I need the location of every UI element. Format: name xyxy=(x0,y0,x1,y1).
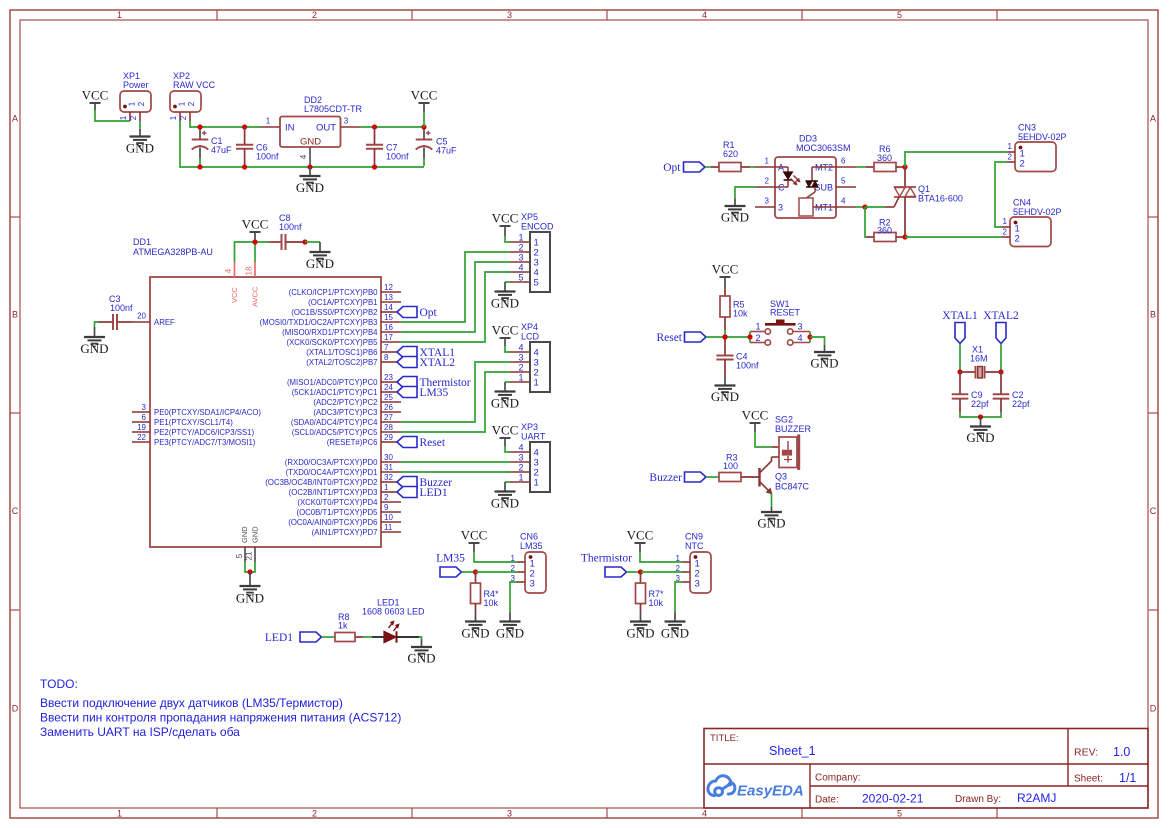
svg-text:PE3(PTCY/ADC7/T3/MOSI1): PE3(PTCY/ADC7/T3/MOSI1) xyxy=(154,438,256,447)
wire xyxy=(322,636,336,638)
svg-text:GND: GND xyxy=(711,389,739,404)
svg-text:(OC0A/AIN0/PTCXY)PD6: (OC0A/AIN0/PTCXY)PD6 xyxy=(288,518,377,527)
svg-text:7: 7 xyxy=(384,343,389,352)
svg-text:100: 100 xyxy=(723,461,738,471)
capacitor C5 xyxy=(426,132,431,134)
svg-text:1: 1 xyxy=(266,117,271,126)
connector CN9 xyxy=(690,552,711,593)
svg-text:(RESET#)PC6: (RESET#)PC6 xyxy=(327,438,378,447)
svg-text:XP4: XP4 xyxy=(521,322,538,332)
net flag LED1 (PD3) xyxy=(397,487,417,498)
svg-text:15: 15 xyxy=(384,313,393,322)
connector XP4 xyxy=(530,342,550,392)
net flag Opt (input) xyxy=(684,162,706,172)
svg-text:10k: 10k xyxy=(733,309,748,319)
svg-text:GND: GND xyxy=(236,591,264,606)
wire xyxy=(462,571,476,573)
svg-text:26: 26 xyxy=(384,403,393,412)
net flag LED1 (input) xyxy=(300,632,322,642)
svg-text:1: 1 xyxy=(755,322,760,332)
wire xyxy=(505,381,510,383)
svg-text:4: 4 xyxy=(518,343,523,353)
svg-text:2: 2 xyxy=(179,115,188,120)
net flag LM35 (PC1) xyxy=(397,387,417,398)
svg-text:5EHDV-02P: 5EHDV-02P xyxy=(1018,132,1067,142)
DD1 pin 32 PD2 xyxy=(381,481,397,483)
svg-text:3: 3 xyxy=(507,10,512,20)
svg-text:D: D xyxy=(12,704,19,714)
svg-text:1: 1 xyxy=(534,478,539,489)
power flag VCC (SG2) xyxy=(750,422,761,424)
svg-text:L7805CDT-TR: L7805CDT-TR xyxy=(304,104,363,114)
svg-text:GND: GND xyxy=(296,180,324,195)
DD1 pin 29 PC6 xyxy=(381,441,397,443)
wire xyxy=(724,330,726,337)
wire xyxy=(305,241,320,243)
svg-text:2: 2 xyxy=(518,243,523,253)
svg-text:16: 16 xyxy=(384,323,393,332)
svg-text:3: 3 xyxy=(778,203,783,213)
svg-text:UART: UART xyxy=(521,432,546,442)
svg-text:RAW VCC: RAW VCC xyxy=(173,80,216,90)
svg-text:1: 1 xyxy=(765,157,770,166)
DD1 pin 31 PD1 xyxy=(381,471,401,473)
power flag VCC (XP3) xyxy=(500,437,511,439)
junction xyxy=(197,124,202,129)
svg-text:AREF: AREF xyxy=(154,318,175,327)
svg-text:GND: GND xyxy=(491,296,519,311)
svg-text:GND: GND xyxy=(250,526,259,543)
svg-text:4: 4 xyxy=(518,443,523,453)
resistor R5 xyxy=(724,288,726,296)
svg-text:LM35: LM35 xyxy=(436,553,465,565)
wire xyxy=(706,476,719,478)
svg-text:1: 1 xyxy=(518,373,523,383)
DD1 pin 12 PB0 xyxy=(381,291,401,293)
net flag Reset (input) xyxy=(685,332,707,342)
DD1 pin 23 PC0 xyxy=(381,381,397,383)
resistor R4* xyxy=(475,572,477,583)
power flag VCC (R5) xyxy=(720,276,731,278)
capacitor C7 xyxy=(374,127,376,145)
wire xyxy=(250,562,255,572)
junction xyxy=(421,124,426,129)
wire xyxy=(401,262,510,332)
wire xyxy=(505,236,510,242)
svg-text:12: 12 xyxy=(384,283,393,292)
svg-text:(XTAL2/TOSC2)PB7: (XTAL2/TOSC2)PB7 xyxy=(306,358,377,367)
wire xyxy=(254,242,256,262)
ground GND (XP3) xyxy=(504,482,506,492)
wire xyxy=(505,281,510,283)
wire xyxy=(401,372,510,432)
ground GND (XP5) xyxy=(504,282,506,292)
junction xyxy=(747,334,752,339)
svg-text:5: 5 xyxy=(518,273,523,283)
svg-text:1.0: 1.0 xyxy=(1113,745,1130,759)
svg-text:LM35: LM35 xyxy=(420,387,449,399)
IC DD1 ATMEGA328PB-AU xyxy=(150,277,381,547)
svg-text:620: 620 xyxy=(723,149,738,159)
svg-text:31: 31 xyxy=(384,463,393,472)
svg-text:10k: 10k xyxy=(484,598,499,608)
svg-text:10: 10 xyxy=(384,513,393,522)
wire xyxy=(705,166,711,168)
DD1 pin 8 PB7 xyxy=(381,361,397,363)
svg-text:1608 0603 LED: 1608 0603 LED xyxy=(362,607,425,617)
svg-text:Buzzer: Buzzer xyxy=(649,472,682,484)
svg-text:(MISO1/ADC0/PTCY)PC0: (MISO1/ADC0/PTCY)PC0 xyxy=(287,378,378,387)
DD1 pin 2 PD4 xyxy=(381,501,401,503)
svg-text:(XCK0/T0/PTCXY)PD4: (XCK0/T0/PTCXY)PD4 xyxy=(297,498,378,507)
svg-text:2: 2 xyxy=(676,564,681,573)
svg-text:(OC0B/T1/PTCXY)PD5: (OC0B/T1/PTCXY)PD5 xyxy=(296,508,378,517)
svg-text:1: 1 xyxy=(534,378,539,389)
wire xyxy=(960,412,1001,417)
svg-text:GND: GND xyxy=(461,626,489,641)
svg-text:Q1: Q1 xyxy=(918,184,930,194)
svg-text:(CLKO/ICP1/PTCXY)PB0: (CLKO/ICP1/PTCXY)PB0 xyxy=(289,288,378,297)
svg-text:IN: IN xyxy=(285,123,295,134)
ground GND (R7*) xyxy=(640,613,642,622)
wire xyxy=(245,562,250,572)
svg-text:3: 3 xyxy=(518,353,523,363)
ground GND (CN9 pin3) xyxy=(674,613,676,622)
svg-text:GND: GND xyxy=(661,626,689,641)
svg-text:Reset: Reset xyxy=(656,332,682,344)
ground GND (C4) xyxy=(724,378,726,386)
svg-text:PE1(PTCXY/SCL1/T4): PE1(PTCXY/SCL1/T4) xyxy=(154,418,233,427)
svg-text:(XTAL1/TOSC1)PB6: (XTAL1/TOSC1)PB6 xyxy=(306,348,377,357)
svg-text:GND: GND xyxy=(300,137,321,148)
junction xyxy=(902,164,907,169)
svg-text:4: 4 xyxy=(841,197,846,206)
DD1 pin 26 PC3 xyxy=(381,411,401,413)
power flag VCC (XP4) xyxy=(500,337,511,339)
DD1 pin 11 PD7 xyxy=(381,531,401,533)
svg-text:Opt: Opt xyxy=(420,307,438,319)
svg-text:2: 2 xyxy=(312,808,317,818)
resistor R7* xyxy=(640,572,642,583)
svg-text:DD3: DD3 xyxy=(799,134,817,144)
svg-text:(SDA0/ADC4/PTCY)PC4: (SDA0/ADC4/PTCY)PC4 xyxy=(291,418,378,427)
wire xyxy=(423,113,425,128)
resistor R6 xyxy=(866,166,874,168)
svg-text:(XCK0/SCK0/PTCXY)PB5: (XCK0/SCK0/PTCXY)PB5 xyxy=(287,338,379,347)
svg-text:Ввести подключение двух датчик: Ввести подключение двух датчиков (LM35/Т… xyxy=(40,696,343,710)
svg-text:30: 30 xyxy=(384,453,393,462)
wire xyxy=(750,166,755,168)
svg-text:Date:: Date: xyxy=(815,795,839,806)
svg-text:22pf: 22pf xyxy=(971,399,989,409)
svg-text:(MISO0/RXD1/PTCXY)PB4: (MISO0/RXD1/PTCXY)PB4 xyxy=(282,328,378,337)
svg-text:360: 360 xyxy=(877,226,892,236)
svg-text:R2AMJ: R2AMJ xyxy=(1017,791,1056,805)
connector CN4 xyxy=(1010,217,1051,247)
wire xyxy=(235,242,270,262)
svg-text:100nf: 100nf xyxy=(736,361,759,371)
svg-text:2: 2 xyxy=(518,463,523,473)
junction xyxy=(302,239,307,244)
wire xyxy=(856,166,866,168)
wire xyxy=(510,582,517,613)
svg-text:REV:: REV: xyxy=(1074,747,1098,759)
wire xyxy=(627,571,641,573)
ground GND (XTAL) xyxy=(980,417,982,427)
wire xyxy=(856,206,865,208)
svg-text:C: C xyxy=(12,506,19,516)
svg-text:2: 2 xyxy=(312,10,317,20)
junction xyxy=(242,164,247,169)
svg-text:C: C xyxy=(1150,506,1157,516)
junction xyxy=(902,234,907,239)
net flag Thermistor (PC0) xyxy=(397,377,417,388)
connector CN3 xyxy=(1015,142,1056,172)
junction xyxy=(862,204,867,209)
power flag VCC (DD1) xyxy=(250,231,261,233)
svg-text:(ADC2/PTCY)PC2: (ADC2/PTCY)PC2 xyxy=(313,398,377,407)
junction xyxy=(372,164,377,169)
DD1 pin 27 PC4 xyxy=(381,421,401,423)
svg-text:(OC1A/PTCXY)PB1: (OC1A/PTCXY)PB1 xyxy=(308,298,377,307)
svg-text:3: 3 xyxy=(142,403,147,412)
svg-text:(OC2B/INT1/PTCXY)PD3: (OC2B/INT1/PTCXY)PD3 xyxy=(289,488,378,497)
svg-text:3: 3 xyxy=(518,253,523,263)
ground GND (LED1) xyxy=(421,640,423,648)
svg-text:2: 2 xyxy=(1015,234,1020,245)
wire xyxy=(95,110,130,121)
svg-text:VCC: VCC xyxy=(627,528,654,543)
capacitor C9 xyxy=(959,372,961,394)
svg-text:LM35: LM35 xyxy=(520,541,543,551)
svg-text:3: 3 xyxy=(530,579,535,590)
svg-text:(5CK1/ADC1/PTCY)PC1: (5CK1/ADC1/PTCY)PC1 xyxy=(292,388,378,397)
wire xyxy=(139,121,141,129)
svg-text:GND: GND xyxy=(407,651,435,666)
svg-text:100nf: 100nf xyxy=(256,152,279,162)
svg-text:1: 1 xyxy=(1003,217,1008,226)
svg-text:1: 1 xyxy=(511,554,516,563)
svg-text:VCC: VCC xyxy=(242,217,269,232)
svg-text:3: 3 xyxy=(344,117,349,126)
LED LED1 1608 0603 xyxy=(372,636,384,638)
DD1 pin 25 PC2 xyxy=(381,401,401,403)
svg-text:4: 4 xyxy=(518,263,523,273)
wire xyxy=(505,481,510,483)
svg-text:VCC: VCC xyxy=(492,211,519,226)
DD1 pin 14 PB2 xyxy=(381,311,397,313)
svg-text:2: 2 xyxy=(755,333,760,343)
svg-text:11: 11 xyxy=(384,523,393,532)
wire xyxy=(419,637,422,640)
net flag XTAL1 (PB6) xyxy=(397,347,417,358)
svg-text:2: 2 xyxy=(1008,153,1013,162)
svg-text:14: 14 xyxy=(384,303,393,312)
regulator DD2 L7805CDT-TR xyxy=(280,117,341,148)
wire xyxy=(865,206,885,208)
svg-text:2: 2 xyxy=(1003,228,1008,237)
svg-text:GND: GND xyxy=(810,356,838,371)
connector CN6 xyxy=(525,552,546,593)
svg-text:2: 2 xyxy=(511,564,516,573)
wire xyxy=(401,272,510,342)
svg-text:5: 5 xyxy=(534,278,539,289)
svg-text:6: 6 xyxy=(142,413,147,422)
svg-text:1k: 1k xyxy=(338,621,348,631)
triac Q1 BTA16-600 xyxy=(904,167,906,187)
svg-text:PE2(PTCY/ADC6/ICP3/SS1): PE2(PTCY/ADC6/ICP3/SS1) xyxy=(154,428,254,437)
wire xyxy=(401,471,510,473)
junction xyxy=(978,414,983,419)
junction xyxy=(197,164,202,169)
crystal X1 16M xyxy=(960,371,976,373)
svg-text:Drawn By:: Drawn By: xyxy=(955,794,1001,805)
wire xyxy=(401,252,510,322)
svg-text:3: 3 xyxy=(507,808,512,818)
DD1 pin 18 AVCC xyxy=(254,262,256,277)
svg-text:2020-02-21: 2020-02-21 xyxy=(862,792,924,806)
svg-text:1: 1 xyxy=(1008,142,1013,151)
svg-text:360: 360 xyxy=(877,153,892,163)
DD1 pin 19 PE2 xyxy=(132,431,150,433)
wire xyxy=(363,636,372,638)
DD1 pin 16 PB4 xyxy=(381,331,401,333)
svg-text:2: 2 xyxy=(518,363,523,373)
ground GND (SW1) xyxy=(824,345,826,352)
net flag XTAL2 (PB7) xyxy=(397,357,417,368)
power flag VCC (CN9) xyxy=(635,542,646,544)
net flag Buzzer (PD2) xyxy=(397,477,417,488)
svg-text:VCC: VCC xyxy=(712,262,739,277)
svg-text:3: 3 xyxy=(765,197,770,206)
wire xyxy=(505,446,510,452)
svg-text:DD1: DD1 xyxy=(133,237,151,247)
svg-text:GND: GND xyxy=(496,626,524,641)
svg-text:5: 5 xyxy=(897,10,902,20)
svg-text:2: 2 xyxy=(384,493,389,502)
DD1 pin 1 PD3 xyxy=(381,491,397,493)
svg-text:5EHDV-02P: 5EHDV-02P xyxy=(1013,207,1062,217)
net flag LM35 (input) xyxy=(440,567,462,577)
junction xyxy=(242,124,247,129)
junction xyxy=(722,334,727,339)
wire xyxy=(771,494,773,508)
svg-text:GND: GND xyxy=(491,396,519,411)
svg-text:BC847C: BC847C xyxy=(775,482,810,492)
net flag XTAL2 (input) xyxy=(996,323,1006,344)
svg-text:LED1: LED1 xyxy=(420,487,448,499)
svg-text:(TXD0/OC4A/PTCXY)PD1: (TXD0/OC4A/PTCXY)PD1 xyxy=(286,468,378,477)
svg-text:22pf: 22pf xyxy=(1012,399,1030,409)
svg-text:1/1: 1/1 xyxy=(1119,771,1136,785)
svg-text:XP5: XP5 xyxy=(521,212,538,222)
capacitor C1 xyxy=(202,132,207,134)
svg-text:Заменить UART на ISP/сделать о: Заменить UART на ISP/сделать оба xyxy=(40,725,240,739)
wire xyxy=(474,552,517,562)
svg-text:4: 4 xyxy=(702,808,707,818)
svg-text:1: 1 xyxy=(169,115,178,120)
svg-text:GND: GND xyxy=(126,141,154,156)
wire xyxy=(905,236,1002,238)
svg-text:29: 29 xyxy=(384,433,393,442)
svg-text:2: 2 xyxy=(1020,159,1025,170)
wire xyxy=(735,187,755,199)
svg-text:23: 23 xyxy=(384,373,393,382)
junction xyxy=(372,124,377,129)
svg-text:VCC: VCC xyxy=(230,287,239,303)
svg-text:3: 3 xyxy=(798,322,803,332)
DD1 pin 24 PC1 xyxy=(381,391,397,393)
wire xyxy=(401,362,510,422)
svg-text:Q3: Q3 xyxy=(775,472,787,482)
svg-text:25: 25 xyxy=(384,393,393,402)
svg-text:(SCL0/ADC5/PTCY)PC5: (SCL0/ADC5/PTCY)PC5 xyxy=(292,428,378,437)
junction xyxy=(473,569,478,574)
DD1 pin 22 PE3 xyxy=(132,441,150,443)
svg-text:8: 8 xyxy=(384,353,389,362)
svg-text:1: 1 xyxy=(117,10,122,20)
svg-text:1: 1 xyxy=(178,101,187,106)
svg-text:9: 9 xyxy=(384,503,389,512)
svg-text:4: 4 xyxy=(798,333,803,343)
net flag Buzzer (input) xyxy=(685,472,707,482)
svg-text:(OC1B/SS0/PTCXY)PB2: (OC1B/SS0/PTCXY)PB2 xyxy=(291,308,377,317)
wire xyxy=(641,571,683,573)
svg-text:Reset: Reset xyxy=(420,437,446,449)
svg-text:20: 20 xyxy=(137,312,146,321)
svg-text:Sheet_1: Sheet_1 xyxy=(769,744,816,758)
svg-text:21: 21 xyxy=(245,551,254,560)
svg-text:3: 3 xyxy=(518,453,523,463)
svg-text:GND: GND xyxy=(721,210,749,225)
DD1 pin 7 PB6 xyxy=(381,351,397,353)
svg-text:Opt: Opt xyxy=(663,162,681,174)
svg-text:47uF: 47uF xyxy=(436,146,457,156)
svg-text:1: 1 xyxy=(518,233,523,243)
svg-text:1: 1 xyxy=(518,473,523,483)
svg-text:LCD: LCD xyxy=(521,332,540,342)
optocoupler DD3 MOC3063SM xyxy=(775,157,836,218)
ground GND (R4*) xyxy=(475,613,477,622)
ground GND (C3) xyxy=(94,327,96,337)
svg-text:GND: GND xyxy=(757,516,785,531)
svg-text:5: 5 xyxy=(841,177,846,186)
svg-text:22: 22 xyxy=(137,433,146,442)
svg-text:VCC: VCC xyxy=(82,88,109,103)
DD1 pin 4 VCC xyxy=(234,262,236,277)
svg-text:2: 2 xyxy=(129,115,138,120)
DD1 pin 20 AREF xyxy=(132,321,150,323)
svg-text:XTAL2: XTAL2 xyxy=(983,310,1019,322)
capacitor C4 xyxy=(724,337,726,356)
svg-text:18: 18 xyxy=(245,266,254,275)
wire xyxy=(476,571,518,573)
svg-text:AVCC: AVCC xyxy=(250,286,259,307)
wire xyxy=(810,337,825,345)
resistor R3 xyxy=(719,473,741,482)
capacitor C6 xyxy=(244,127,246,145)
svg-text:(RXD0/OC3A/PTCXY)PD0: (RXD0/OC3A/PTCXY)PD0 xyxy=(285,458,378,467)
svg-text:Company:: Company: xyxy=(815,773,861,784)
capacitor C2 xyxy=(1000,372,1002,394)
svg-text:BUZZER: BUZZER xyxy=(775,424,812,434)
svg-text:1: 1 xyxy=(119,115,128,120)
svg-text:VCC: VCC xyxy=(411,88,438,103)
net flag Reset (PC6) xyxy=(397,437,417,448)
svg-text:Power: Power xyxy=(123,80,149,90)
svg-text:BTA16-600: BTA16-600 xyxy=(918,194,963,204)
svg-text:6: 6 xyxy=(841,157,846,166)
